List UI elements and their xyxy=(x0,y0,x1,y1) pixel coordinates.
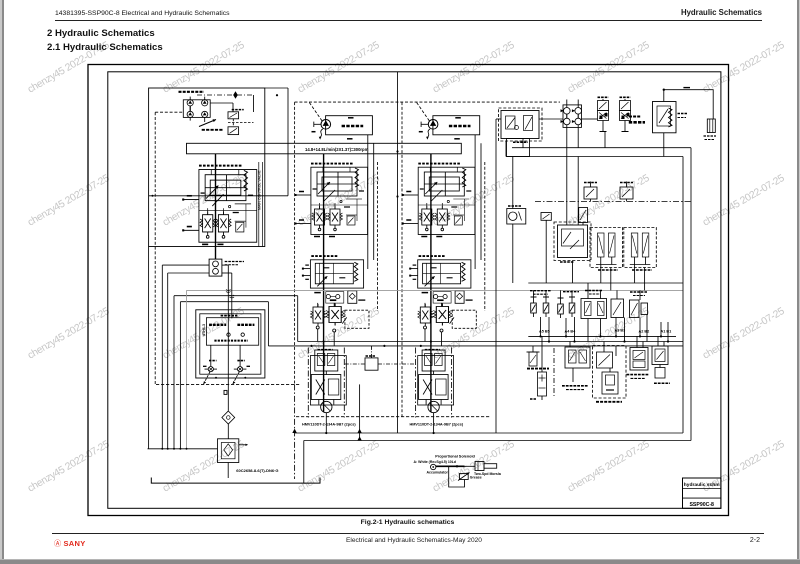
cluster 3 dashed frame xyxy=(484,162,486,311)
c2 diag link xyxy=(342,317,346,323)
pump link wire xyxy=(189,106,191,111)
drain circles c2 xyxy=(316,326,319,329)
tank return line xyxy=(304,440,691,442)
figure caption xyxy=(0,519,800,526)
pedal L lever xyxy=(204,372,211,384)
shuttle links xyxy=(371,346,373,358)
shear valve 2 xyxy=(620,187,633,199)
cylinder group 1 label xyxy=(598,269,618,271)
swing brake cluster xyxy=(558,225,588,258)
page bottom edge xyxy=(0,559,800,560)
bus wire 1 xyxy=(162,264,209,266)
center drop wire xyxy=(397,72,399,433)
solenoid valve S2 xyxy=(620,99,631,132)
heading 2.1 xyxy=(47,42,163,53)
pilot filter xyxy=(707,119,715,133)
relief valve R1 xyxy=(531,297,537,317)
gear pump block xyxy=(209,259,222,276)
pump1 name label xyxy=(342,125,364,127)
pump P6 xyxy=(202,111,208,117)
relief valve R2 xyxy=(543,297,549,317)
dashed pilot box left xyxy=(155,111,183,113)
flow arrow xyxy=(233,91,238,99)
right riser B xyxy=(682,157,684,434)
return filter xyxy=(218,439,239,463)
shear valve 1 xyxy=(584,187,597,199)
valve bus B xyxy=(298,341,683,343)
svg-text:Two-Spd Morsla: Two-Spd Morsla xyxy=(474,472,501,476)
dashed rail C xyxy=(401,102,403,417)
manifold drops xyxy=(522,139,524,148)
pump1 block xyxy=(326,116,373,135)
left rail lower xyxy=(148,247,150,449)
pump P3 xyxy=(187,100,193,106)
rotary joint stubs xyxy=(566,100,568,108)
motor control cluster 2 xyxy=(302,256,365,303)
svg-text:60C2658-8-6(T)-DN6·G: 60C2658-8-6(T)-DN6·G xyxy=(236,468,278,473)
cluster 2 dashed frame xyxy=(377,162,379,311)
svg-text:HMV110DT-2-134A-9B7 (2pcs): HMV110DT-2-134A-9B7 (2pcs) xyxy=(410,423,464,427)
pilot relief label xyxy=(678,113,688,115)
SANY logo mark xyxy=(54,539,61,549)
title block xyxy=(683,478,721,508)
undercarriage dash-dot xyxy=(535,201,691,203)
motor control cluster 3 xyxy=(409,256,472,303)
footer page number xyxy=(750,537,760,544)
mclu drop wires c3 xyxy=(424,329,426,342)
travel motor 2 xyxy=(416,348,454,424)
dashed pilot bottom xyxy=(156,383,301,385)
svg-text:Accumulator: Accumulator xyxy=(427,470,449,474)
drain circles c3 xyxy=(424,326,427,329)
svg-text:Grease: Grease xyxy=(470,475,482,479)
solenoid part label xyxy=(629,121,645,124)
dashed pilot links xyxy=(232,119,234,127)
svg-text:HMV110DT-2-134A-9B7 (2pcs): HMV110DT-2-134A-9B7 (2pcs) xyxy=(302,423,356,427)
gear pump G2 xyxy=(213,268,219,274)
pedal L label xyxy=(209,360,217,362)
check block xyxy=(541,213,551,221)
pilot pump bracket xyxy=(183,100,210,118)
dashed rail B xyxy=(294,102,296,384)
fan motor xyxy=(507,209,526,225)
bus junctions xyxy=(310,335,669,347)
lower return wire xyxy=(528,282,683,284)
bus wire 2 xyxy=(168,272,209,274)
dashed rail B lower xyxy=(294,384,296,479)
pilot gray line xyxy=(187,289,684,291)
bypass pair col3 xyxy=(474,135,476,269)
cylinder group 2 label xyxy=(632,269,652,271)
bus wire 3 xyxy=(174,295,298,297)
solenoid block D xyxy=(627,336,649,378)
check valve xyxy=(222,411,235,424)
pilot valve bank outer xyxy=(196,310,265,378)
overload block xyxy=(581,299,607,319)
main riser P2 xyxy=(430,154,432,412)
page left edge xyxy=(0,0,2,560)
swing drops xyxy=(512,224,514,283)
svg-text:4TH6-3: 4TH6-3 xyxy=(202,324,206,336)
bus collector xyxy=(148,448,218,450)
grease pump xyxy=(460,474,469,480)
return arrow xyxy=(292,429,297,433)
dashed vertical rail xyxy=(154,112,156,384)
svg-text:SSP90C-8: SSP90C-8 xyxy=(689,502,714,508)
comp7 label xyxy=(630,291,648,293)
comp7 valves xyxy=(630,300,648,318)
svg-text:A: White (Re=Sg4.5) 10Ld: A: White (Re=Sg4.5) 10Ld xyxy=(414,460,457,464)
footer rule xyxy=(52,533,764,534)
control valve cluster 3 xyxy=(402,164,475,237)
travel motor 1 xyxy=(308,348,346,424)
acc feed wire xyxy=(436,465,465,467)
fan motor label xyxy=(508,205,521,207)
gear pump label xyxy=(225,261,244,263)
pump P5 xyxy=(187,111,193,117)
c3 diag link xyxy=(450,317,454,323)
return header wire xyxy=(512,147,691,149)
svg-text:Proportional Solenoid: Proportional Solenoid xyxy=(435,455,475,459)
pump P4 xyxy=(202,100,208,106)
grease loop xyxy=(449,466,465,487)
rotary joint C xyxy=(564,118,571,125)
solenoid valve S1 xyxy=(598,99,609,132)
dash-dot pilot line xyxy=(197,94,254,96)
relief valve V1 xyxy=(228,112,239,119)
return junction xyxy=(357,429,361,433)
solenoid valve S2 label xyxy=(620,96,631,98)
pressure switch group xyxy=(562,342,590,390)
pump value label xyxy=(202,129,224,131)
pedal valve R xyxy=(238,367,243,372)
svg-text:MAIN CONTROL VALVE: MAIN CONTROL VALVE xyxy=(258,170,262,210)
page right edge xyxy=(797,0,799,560)
pilot section valve c3b xyxy=(433,304,451,326)
port stub wires xyxy=(541,315,669,342)
pedal drains xyxy=(215,377,217,379)
shuttle label xyxy=(366,355,377,357)
swing cluster label xyxy=(560,261,574,263)
rotary joint D xyxy=(575,118,582,125)
inline valve xyxy=(579,208,588,223)
right riser A xyxy=(690,148,692,441)
SANY logo text xyxy=(64,539,86,548)
pilot relief block xyxy=(653,102,677,133)
c3 dashed pilot box xyxy=(452,310,476,328)
relief row label 1 xyxy=(530,290,551,292)
bank title A xyxy=(209,324,226,326)
pump stub wires xyxy=(189,97,191,100)
header rule xyxy=(55,20,762,21)
shear valve 2 label xyxy=(620,182,633,184)
seal marker xyxy=(224,390,227,394)
filter to tank xyxy=(227,463,229,479)
cyl connect xyxy=(465,465,476,467)
c2 dashed pilot box xyxy=(345,310,369,328)
drain block E xyxy=(652,336,670,383)
bank shuttle a xyxy=(227,333,230,336)
two-speed cylinder xyxy=(475,462,484,471)
accumulator wire xyxy=(664,90,713,119)
main return line xyxy=(295,432,683,434)
joint feed wire xyxy=(539,118,563,120)
filter drop xyxy=(227,424,229,439)
control valve cluster 2 xyxy=(295,164,368,237)
bus wire 4 xyxy=(180,301,268,303)
bank title B xyxy=(237,324,254,326)
swing supply wire xyxy=(495,119,497,433)
cylinder drops xyxy=(600,265,602,284)
shuttle box xyxy=(365,358,378,370)
pilot section valve c3a xyxy=(418,304,433,326)
valve bus A xyxy=(528,335,676,337)
bank block xyxy=(206,318,258,346)
relief valve R3 xyxy=(558,298,564,318)
outer border frame xyxy=(88,65,729,516)
pilot section valve c2a xyxy=(311,304,326,326)
rotary joint B xyxy=(575,108,582,115)
pedal valve L xyxy=(208,367,213,372)
gear pump feed xyxy=(215,154,217,259)
inner border frame xyxy=(108,72,721,509)
port line PL xyxy=(149,195,288,197)
relief row label 2 xyxy=(563,291,579,293)
mclu drop wires c2 xyxy=(317,329,319,342)
main pump1 suction dash xyxy=(295,101,560,103)
pilot accumulator group xyxy=(593,342,627,402)
pilot manifold label xyxy=(513,141,528,143)
pump2 name label xyxy=(449,125,471,127)
header left text xyxy=(55,10,230,17)
bank shuttle b xyxy=(241,333,244,336)
brake valve group xyxy=(527,336,555,400)
hydraulic tank xyxy=(151,478,320,484)
tank return drop xyxy=(303,441,305,484)
pump out wires xyxy=(222,264,228,266)
relief valve label xyxy=(232,109,244,111)
pilot manifold dashed xyxy=(499,108,543,141)
acc wire label xyxy=(683,87,690,89)
hose break marks xyxy=(226,290,231,293)
valve bus C xyxy=(268,345,683,347)
pump1 drive dash xyxy=(309,103,322,122)
svg-text:hydraulic schm: hydraulic schm xyxy=(684,482,721,488)
control valve cluster 1 xyxy=(182,166,257,245)
pilot pump label xyxy=(179,91,205,93)
header right text xyxy=(681,8,762,17)
main pump P1 xyxy=(321,120,331,130)
svg-text:A1 B1: A1 B1 xyxy=(661,330,672,334)
pilot pump group box xyxy=(149,88,265,247)
main pump P2 xyxy=(428,120,438,130)
bank top label xyxy=(221,315,238,317)
bypass pair col2 xyxy=(367,135,369,269)
shear valve 1 label xyxy=(584,182,597,184)
pump2 drive dash xyxy=(417,103,430,122)
pedal R lever xyxy=(233,372,240,384)
pilot manifold xyxy=(501,111,539,139)
gear pump G1 xyxy=(213,261,219,267)
footer center text xyxy=(0,537,800,544)
rotary joint bracket xyxy=(563,105,582,128)
relief valve V2 xyxy=(228,127,239,135)
rotary joint A xyxy=(564,108,571,115)
cylinder group 1 xyxy=(590,228,623,268)
relief valve R4 xyxy=(569,297,575,317)
drain header wire xyxy=(506,156,683,158)
pedal R label xyxy=(237,360,245,362)
pilot section valve c2b xyxy=(326,304,344,326)
accumulator symbol xyxy=(431,464,436,469)
pilot valve bank inner wrap xyxy=(200,314,261,374)
solenoid valve S1 label xyxy=(598,96,609,98)
pilot gray drop xyxy=(186,290,188,448)
variable displacement arrow xyxy=(199,120,216,127)
bypass valve xyxy=(611,299,624,318)
main riser P1 xyxy=(323,154,325,412)
heading 2 xyxy=(47,28,155,39)
bank port row xyxy=(214,340,248,342)
cylinder group 2 xyxy=(624,228,657,268)
svg-text:14.8+14.8L/min(2X1.37)=300rpm: 14.8+14.8L/min(2X1.37)=300rpm xyxy=(305,147,369,152)
pump2 block xyxy=(433,116,480,135)
wire to valves xyxy=(253,95,255,112)
block label xyxy=(585,290,603,292)
pilot filter label xyxy=(704,135,717,137)
main flow bar xyxy=(187,143,462,154)
